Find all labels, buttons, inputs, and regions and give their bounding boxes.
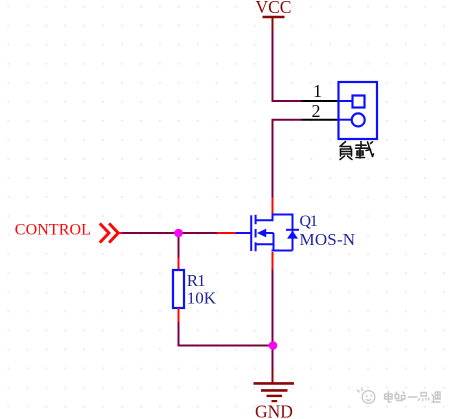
label 负载 (load) <box>340 142 374 160</box>
label R1 <box>187 271 205 290</box>
transistor Q1 gate pin (red) <box>217 232 236 234</box>
svg-text:MOS-N: MOS-N <box>300 230 356 249</box>
svg-text:1: 1 <box>313 81 322 101</box>
label MOS-N <box>300 230 356 249</box>
resistor R1 bottom pin (red) <box>178 308 180 323</box>
svg-text:2: 2 <box>312 101 321 121</box>
label 10K <box>187 288 217 307</box>
wire load pin 2 to Q1 drain <box>273 120 302 198</box>
pin 1 of load connector <box>301 81 339 101</box>
transistor Q1 drain pin (red) <box>272 198 274 215</box>
node junction at ground <box>269 341 278 350</box>
connector J1 body (load) <box>339 82 378 139</box>
wire R1 bottom to ground node <box>179 322 274 346</box>
resistor R1 body <box>173 270 184 308</box>
svg-text:10K: 10K <box>187 288 217 307</box>
label Q1 <box>300 213 318 230</box>
ground symbol <box>254 369 295 401</box>
label GND <box>255 401 293 419</box>
wire junction down to R1 <box>178 233 180 258</box>
watermark logo icon <box>357 388 375 404</box>
watermark text 电路一点通 <box>384 391 440 402</box>
node junction at CONTROL/R1 <box>174 229 183 238</box>
wire Q1 source down to ground node <box>272 270 274 347</box>
svg-text:CONTROL: CONTROL <box>15 222 91 239</box>
port CONTROL label <box>15 222 91 239</box>
resistor R1 top pin (red) <box>178 258 180 271</box>
wire VCC to load pin 1 <box>273 31 302 102</box>
svg-text:Q1: Q1 <box>300 213 318 230</box>
transistor Q1 body (MOS-N) <box>236 214 300 252</box>
svg-text:VCC: VCC <box>256 0 292 17</box>
svg-text:GND: GND <box>255 401 293 419</box>
port CONTROL chevron symbol <box>100 223 124 242</box>
wire CONTROL to Q1 gate <box>123 232 218 234</box>
transistor Q1 source pin (red) <box>272 252 274 271</box>
pin 2 of load connector <box>301 101 339 121</box>
svg-text:R1: R1 <box>187 271 205 290</box>
power port VCC <box>256 0 292 31</box>
wire node to ground symbol <box>272 346 274 372</box>
